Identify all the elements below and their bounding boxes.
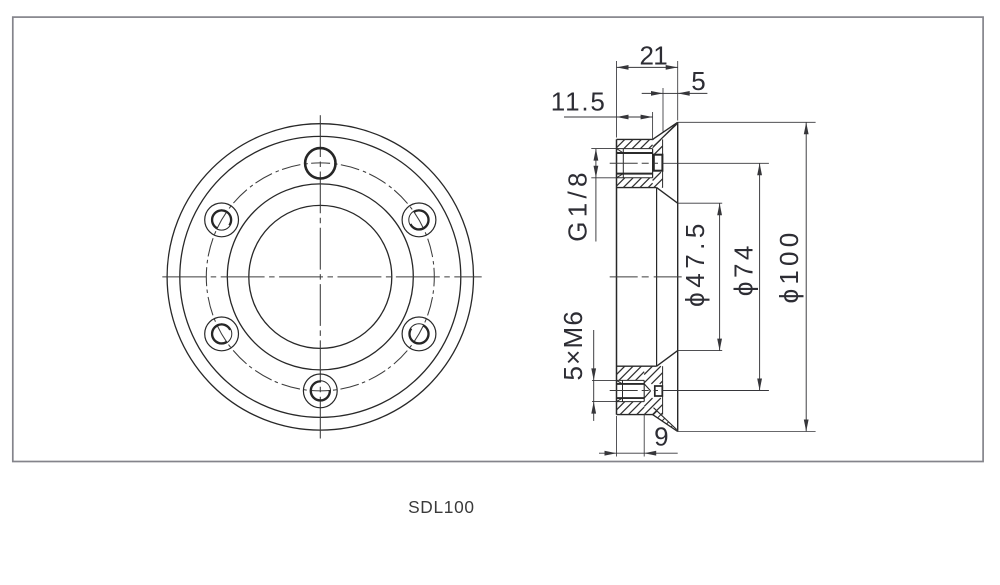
svg-text:ϕ100: ϕ100: [774, 229, 804, 304]
svg-text:11.5: 11.5: [551, 87, 607, 117]
svg-text:SDL100: SDL100: [408, 497, 475, 517]
svg-text:5×M6: 5×M6: [558, 310, 588, 381]
svg-text:ϕ47.5: ϕ47.5: [680, 219, 710, 307]
svg-text:5: 5: [691, 66, 705, 96]
svg-text:9: 9: [654, 421, 668, 451]
svg-text:ϕ74: ϕ74: [729, 242, 759, 296]
svg-text:21: 21: [640, 41, 668, 71]
svg-text:G1/8: G1/8: [563, 168, 593, 242]
